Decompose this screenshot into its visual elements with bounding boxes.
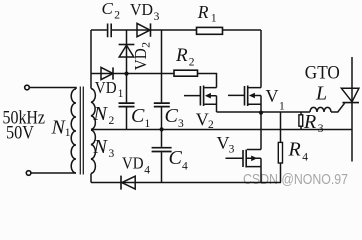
svg-text:VD: VD	[130, 0, 153, 19]
svg-text:3: 3	[109, 148, 115, 160]
svg-text:L: L	[315, 83, 327, 105]
svg-text:2: 2	[208, 119, 214, 131]
svg-text:3: 3	[318, 123, 324, 135]
svg-text:2: 2	[140, 42, 152, 48]
svg-text:R: R	[197, 2, 209, 22]
svg-text:C: C	[169, 147, 183, 169]
svg-text:1: 1	[279, 101, 285, 113]
svg-text:4: 4	[144, 164, 150, 176]
svg-text:C: C	[102, 0, 114, 18]
svg-text:C: C	[165, 105, 179, 127]
svg-text:2: 2	[189, 56, 195, 68]
svg-text:N: N	[93, 136, 109, 158]
svg-text:2: 2	[114, 9, 120, 21]
svg-text:1: 1	[211, 13, 217, 25]
svg-text:V: V	[266, 86, 279, 106]
svg-text:V: V	[217, 133, 230, 153]
svg-text:1: 1	[145, 118, 151, 130]
svg-text:3: 3	[229, 144, 235, 156]
svg-text:1: 1	[65, 127, 71, 139]
svg-text:2: 2	[109, 115, 115, 127]
svg-text:R: R	[175, 45, 188, 66]
svg-text:R: R	[288, 139, 301, 161]
svg-text:VD: VD	[95, 78, 117, 97]
svg-text:CSDN @NONO.97: CSDN @NONO.97	[243, 171, 348, 188]
svg-text:3: 3	[178, 118, 184, 130]
svg-text:50V: 50V	[6, 123, 34, 144]
svg-text:VD: VD	[122, 154, 144, 173]
svg-text:GTO: GTO	[305, 63, 340, 84]
svg-text:R: R	[303, 111, 316, 133]
svg-text:C: C	[131, 105, 145, 127]
svg-text:N: N	[93, 103, 109, 125]
svg-text:1: 1	[118, 88, 124, 100]
svg-text:4: 4	[182, 160, 188, 172]
svg-text:3: 3	[154, 11, 160, 23]
svg-text:VD: VD	[131, 48, 150, 70]
svg-text:V: V	[196, 109, 209, 129]
svg-text:4: 4	[302, 152, 308, 164]
